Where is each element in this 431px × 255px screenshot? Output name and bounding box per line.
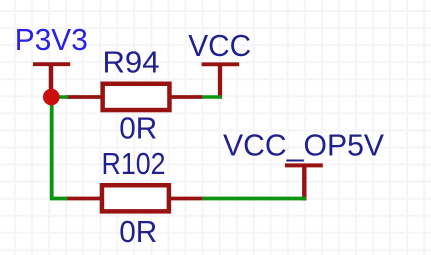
- power symbol VCC stem: [218, 64, 222, 98]
- resistor R94 body: [103, 84, 170, 110]
- svg-text:R94: R94: [103, 44, 160, 79]
- power symbol P3V3 bar: [33, 62, 70, 66]
- svg-text:VCC_OP5V: VCC_OP5V: [223, 128, 384, 163]
- svg-text:R102: R102: [102, 146, 166, 181]
- power symbol VCC bar: [202, 62, 240, 66]
- wire: R94 left pin (dark red): [66, 95, 102, 99]
- wire: junction down then right to R102 (green): [52, 97, 68, 199]
- wire: R102 left pin (dark red): [66, 197, 101, 201]
- svg-text:0R: 0R: [119, 214, 157, 249]
- power symbol VCC_OP5V bar: [285, 163, 323, 167]
- wire: R94 right pin (dark red): [170, 95, 202, 99]
- power symbol P3V3 stem: [49, 64, 54, 97]
- wire: junction to R94 (green): [51, 95, 68, 99]
- power symbol VCC_OP5V stem: [302, 165, 306, 200]
- wire: R102 right pin (dark red): [168, 197, 202, 201]
- wire: green segment into VCC_OP5V: [202, 197, 306, 201]
- svg-text:P3V3: P3V3: [15, 22, 88, 57]
- svg-text:0R: 0R: [119, 110, 157, 145]
- svg-text:VCC: VCC: [188, 28, 251, 63]
- wire: green segment into VCC: [202, 95, 222, 99]
- junction dot: [43, 89, 60, 106]
- resistor R102 body: [102, 185, 169, 211]
